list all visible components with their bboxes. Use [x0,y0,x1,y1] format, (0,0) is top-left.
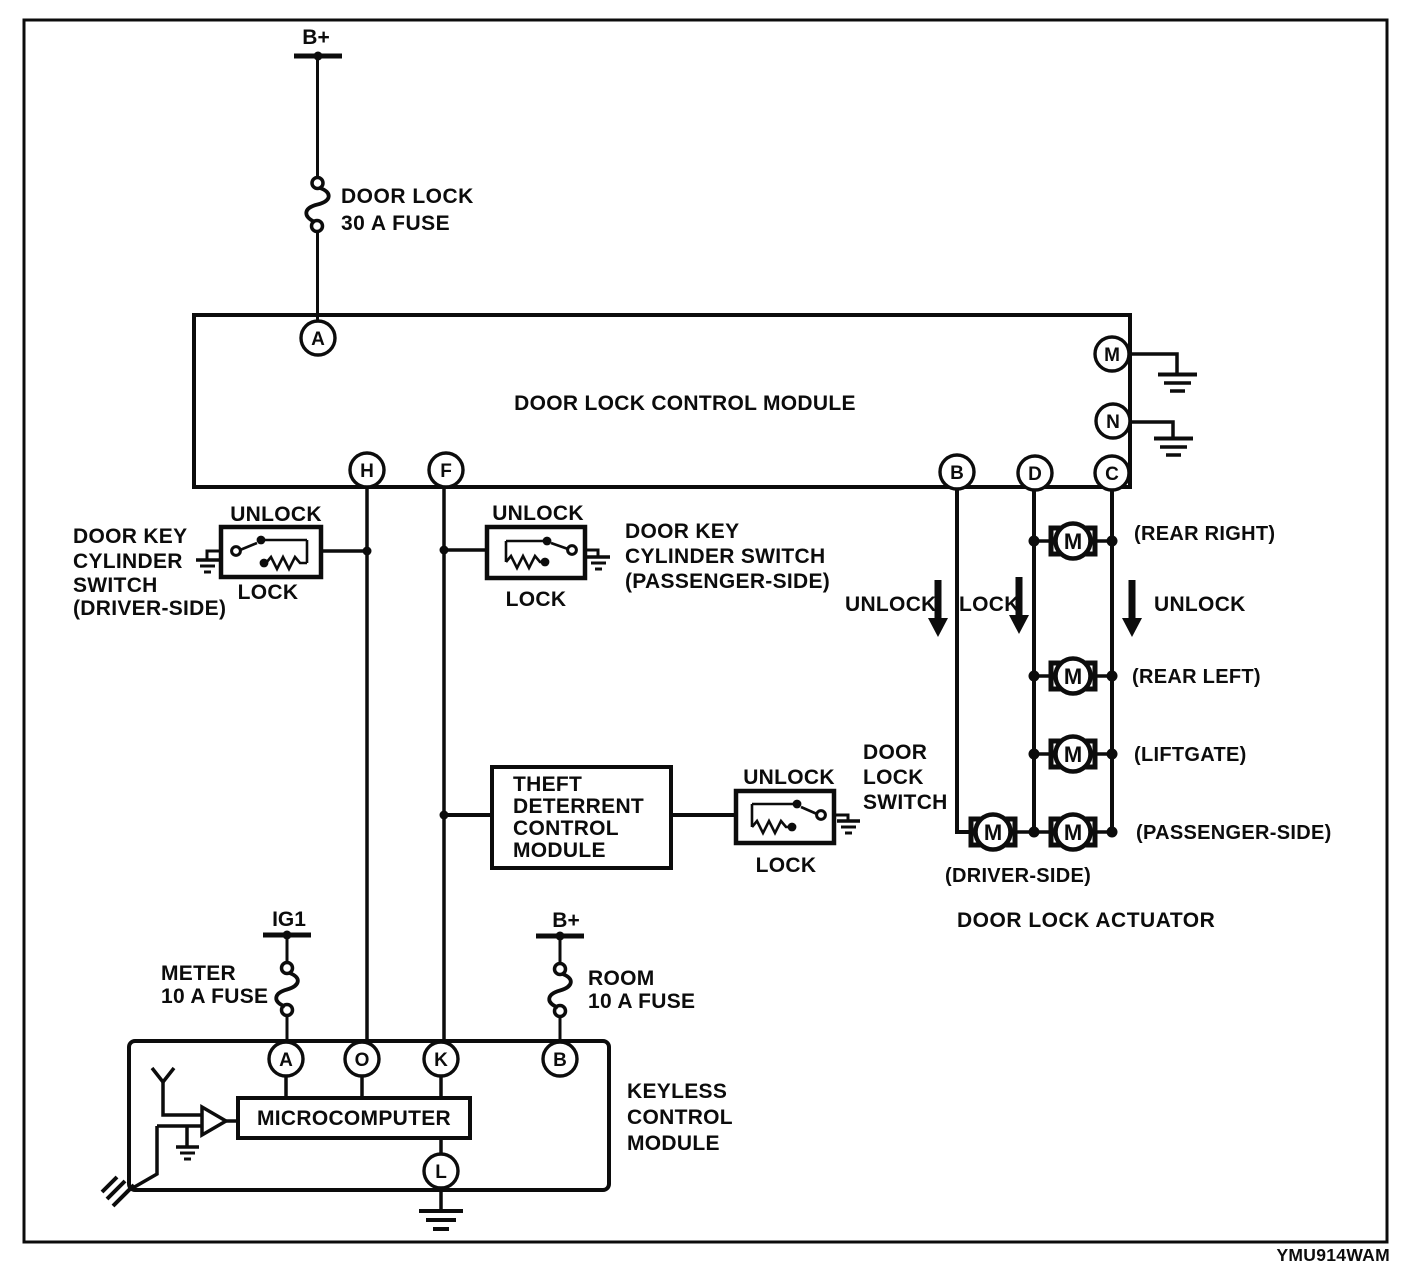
svg-text:L: L [435,1162,447,1183]
terminal K (keyless) [424,1042,458,1076]
svg-text:(LIFTGATE): (LIFTGATE) [1134,744,1247,766]
wire driver switch to ground [207,551,221,559]
ground (terminal M) [1158,375,1197,392]
IG1 supply [263,908,311,940]
label LOCK (middle arrow) [959,593,1020,616]
svg-text:DOOR LOCK: DOOR LOCK [341,185,474,208]
wire meter fuse to terminal A (keyless) [286,1015,289,1047]
wire B+ to room fuse [559,936,562,965]
terminal L (keyless) [424,1154,458,1188]
junction F x theft module [440,811,449,820]
door lock control module box [194,315,1130,487]
svg-text:IG1: IG1 [272,908,306,931]
wire L to ground [439,1187,443,1210]
fuse DOOR LOCK 30 A [306,178,328,232]
label UNLOCK (passenger switch) [492,502,584,525]
svg-text:CYLINDER: CYLINDER [73,550,183,573]
actuator motor liftgate [1034,737,1112,772]
svg-text:UNLOCK: UNLOCK [230,503,322,526]
switch contacts (passenger-side) [506,537,576,567]
svg-text:LOCK: LOCK [238,581,299,604]
wire amp input to internal ground [185,1126,189,1146]
B+ supply (top) [294,26,342,61]
wire F line to theft module [444,813,492,817]
svg-text:(REAR LEFT): (REAR LEFT) [1132,666,1261,688]
wire F line to passenger switch [444,548,487,552]
svg-text:B+: B+ [302,26,329,49]
ground (amp input) [176,1147,199,1159]
terminal D [1018,456,1052,490]
resistor (driver switch) [266,557,307,569]
svg-text:MODULE: MODULE [627,1132,720,1155]
label MICROCOMPUTER [257,1107,451,1130]
terminal M [1095,337,1129,371]
terminal B (keyless) [543,1042,577,1076]
ground (terminal L) [419,1211,463,1229]
svg-text:30 A FUSE: 30 A FUSE [341,212,450,235]
theft deterrent control module box [492,767,671,868]
svg-text:(PASSENGER-SIDE): (PASSENGER-SIDE) [1136,822,1332,844]
label UNLOCK (right arrow) [1154,593,1246,616]
label UNLOCK (door lock switch) [743,766,835,789]
svg-text:K: K [434,1050,448,1071]
fuse ROOM 10 A [549,964,571,1017]
svg-text:(REAR RIGHT): (REAR RIGHT) [1134,523,1275,545]
svg-text:DOOR LOCK CONTROL MODULE: DOOR LOCK CONTROL MODULE [514,392,856,415]
theft deterrent control module text [513,773,644,862]
wire amp lower input [157,1124,202,1128]
label ROOM 10 A FUSE [588,967,695,1013]
label UNLOCK (driver switch) [230,503,322,526]
svg-text:DOOR KEY: DOOR KEY [73,525,187,548]
B+ supply (room fuse) [536,909,584,941]
svg-text:A: A [311,329,325,350]
wire passenger switch to ground [585,550,598,556]
svg-text:SWITCH: SWITCH [863,791,948,814]
wire N to ground [1130,422,1173,437]
svg-text:CYLINDER SWITCH: CYLINDER SWITCH [625,545,826,568]
svg-text:LOCK: LOCK [506,588,567,611]
svg-text:(DRIVER-SIDE): (DRIVER-SIDE) [73,597,226,620]
svg-text:B: B [553,1050,567,1071]
svg-text:C: C [1105,464,1119,485]
wire K to microcomputer [439,1075,443,1098]
wire driver switch to H line [321,549,367,553]
svg-text:LOCK: LOCK [863,766,924,789]
svg-text:H: H [360,461,374,482]
resistor (passenger switch) [506,556,543,568]
door lock control module title [514,392,856,415]
junction H x driver switch [363,547,372,556]
svg-text:DOOR KEY: DOOR KEY [625,520,739,543]
wire room fuse to terminal B (keyless) [559,1016,562,1047]
wire C down to actuators [1110,489,1114,832]
door lock switch box [736,791,834,843]
actuator motor passenger-side [1034,815,1112,850]
actuator motor driver-side [971,815,1034,850]
svg-text:SWITCH: SWITCH [73,574,158,597]
terminal H [350,453,384,487]
svg-text:LOCK: LOCK [756,854,817,877]
svg-text:M: M [1064,529,1082,554]
svg-text:THEFT: THEFT [513,773,582,796]
wire door lock switch to ground [834,815,848,820]
actuator motor rear right [1034,524,1112,559]
svg-text:YMU914WAM: YMU914WAM [1276,1245,1390,1265]
svg-text:DETERRENT: DETERRENT [513,795,644,818]
label (PASSENGER-SIDE) [1136,822,1332,844]
label LOCK (driver switch) [238,581,299,604]
terminal F [429,453,463,487]
wire B+ to fuse [316,56,319,178]
junction C x rear right [1107,536,1118,547]
label METER 10 A FUSE [161,962,268,1008]
wire O to microcomputer [360,1075,364,1098]
ground (terminal N) [1154,439,1193,456]
wire IG1 to meter fuse [286,935,289,964]
label LOCK (door lock switch) [756,854,817,877]
junction D x rear left [1029,671,1040,682]
svg-text:MODULE: MODULE [513,839,606,862]
label DOOR KEY CYLINDER SWITCH (DRIVER-SIDE) [73,525,226,620]
svg-text:O: O [355,1050,370,1071]
door key cylinder switch driver-side box [221,527,321,577]
svg-text:A: A [279,1050,293,1071]
wire theft module to door lock switch [671,813,736,817]
amplifier triangle [202,1107,238,1135]
label (LIFTGATE) [1134,744,1247,766]
switch contacts (driver-side) [232,536,307,568]
wire F to terminal K [442,487,446,1046]
ground (passenger switch) [587,557,610,569]
svg-text:N: N [1106,412,1120,433]
chassis ground (module corner) [102,1177,134,1206]
diagram code YMU914WAM [1276,1245,1390,1265]
junction D x liftgate [1029,749,1040,760]
terminal A (keyless) [269,1042,303,1076]
label KEYLESS CONTROL MODULE [627,1080,733,1155]
terminal B [940,455,974,489]
svg-text:F: F [440,461,452,482]
label DOOR LOCK SWITCH [863,741,948,814]
terminal N [1096,404,1130,438]
terminal O (keyless) [345,1042,379,1076]
label DOOR LOCK ACTUATOR [957,909,1215,932]
svg-text:M: M [1064,820,1082,845]
svg-text:UNLOCK: UNLOCK [492,502,584,525]
svg-text:KEYLESS: KEYLESS [627,1080,727,1103]
label (REAR RIGHT) [1134,523,1275,545]
svg-text:MICROCOMPUTER: MICROCOMPUTER [257,1107,451,1130]
arrow UNLOCK (right) [1122,580,1142,637]
junction C x rear left [1107,671,1118,682]
wire microcomputer to terminal L [439,1138,443,1156]
keyless control module box [129,1041,609,1190]
junction D x rear right [1029,536,1040,547]
terminal C [1095,456,1129,490]
ground (door lock switch) [837,821,860,833]
microcomputer box [238,1098,470,1138]
arrow LOCK (middle) [1009,577,1029,634]
svg-text:UNLOCK: UNLOCK [845,593,937,616]
svg-text:UNLOCK: UNLOCK [1154,593,1246,616]
label (REAR LEFT) [1132,666,1261,688]
arrow UNLOCK (left) [928,580,948,637]
wire A to microcomputer [284,1075,288,1098]
label LOCK (passenger switch) [506,588,567,611]
terminal A [301,321,335,355]
resistor (door lock switch) [752,821,790,833]
junction C x liftgate [1107,749,1118,760]
label (DRIVER-SIDE) [945,865,1091,887]
svg-text:CONTROL: CONTROL [627,1106,733,1129]
label DOOR LOCK 30 A FUSE [341,185,474,235]
wire fuse to terminal A [316,231,319,323]
svg-text:DOOR LOCK ACTUATOR: DOOR LOCK ACTUATOR [957,909,1215,932]
wire B down to driver-side actuator [957,489,970,832]
wire H to terminal O [365,487,369,1046]
antenna [152,1068,202,1115]
ground (driver switch) [196,560,219,572]
svg-text:DOOR: DOOR [863,741,927,764]
actuator motor rear left [1034,659,1112,694]
label UNLOCK (left arrow) [845,593,937,616]
svg-text:ROOM: ROOM [588,967,655,990]
svg-text:M: M [1104,345,1120,366]
wire M to ground [1130,354,1177,373]
junction C x passenger motor [1107,827,1118,838]
wire D down to actuators [1032,489,1036,832]
junction D x bottom motors [1029,827,1040,838]
svg-text:METER: METER [161,962,236,985]
svg-text:(PASSENGER-SIDE): (PASSENGER-SIDE) [625,570,830,593]
svg-text:10 A FUSE: 10 A FUSE [588,990,695,1013]
switch contacts (door lock switch) [752,800,825,832]
wire antenna branch to chassis [131,1126,157,1189]
svg-text:M: M [1064,664,1082,689]
door key cylinder switch passenger-side box [487,527,585,578]
label DOOR KEY CYLINDER SWITCH (PASSENGER-SIDE) [625,520,830,593]
svg-text:B+: B+ [552,909,579,932]
svg-text:D: D [1028,464,1042,485]
junction F x passenger switch [440,546,449,555]
svg-text:10 A FUSE: 10 A FUSE [161,985,268,1008]
svg-text:CONTROL: CONTROL [513,817,619,840]
svg-text:M: M [984,820,1002,845]
fuse METER 10 A [276,963,298,1016]
svg-text:LOCK: LOCK [959,593,1020,616]
svg-text:B: B [950,463,964,484]
svg-text:M: M [1064,742,1082,767]
svg-text:UNLOCK: UNLOCK [743,766,835,789]
svg-text:(DRIVER-SIDE): (DRIVER-SIDE) [945,865,1091,887]
